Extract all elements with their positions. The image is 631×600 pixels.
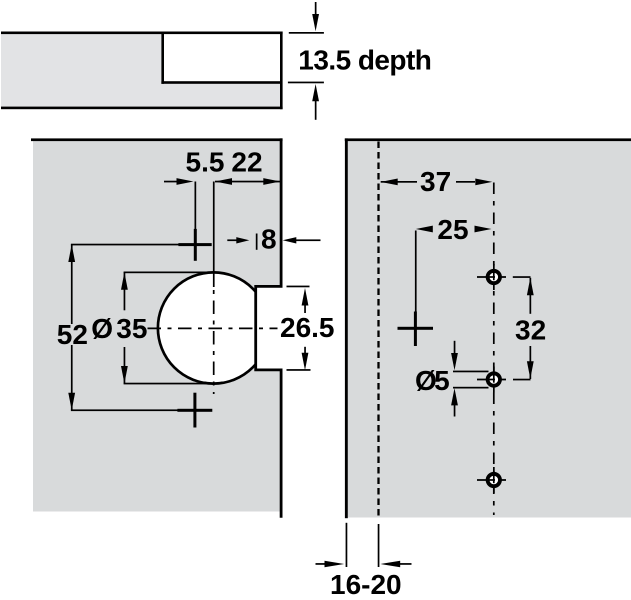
leader bottom tangent — [453, 387, 489, 389]
screw hole 1 — [477, 271, 506, 283]
extension top — [287, 286, 310, 288]
centre line vertical through cup — [213, 290, 215, 394]
arrow right side pointing left — [283, 237, 321, 243]
screw hole centre line vertical — [493, 183, 495, 516]
wire notch bottom edge — [161, 81, 280, 84]
extension bottom — [287, 369, 311, 371]
svg-text:37: 37 — [420, 166, 451, 197]
door front-view gray body — [33, 140, 281, 512]
screw hole 2 — [477, 373, 506, 385]
screw hole 3 — [477, 474, 506, 486]
arrow left side pointing right — [227, 237, 249, 243]
upper cross screw position — [178, 229, 211, 261]
svg-text:25: 25 — [437, 214, 468, 245]
door side-view gray body — [1, 33, 281, 108]
svg-text:5.5: 5.5 — [186, 147, 225, 178]
wire top border of bar — [1, 32, 283, 35]
svg-text:52: 52 — [57, 319, 88, 350]
wire cabinet left border — [345, 138, 348, 518]
extension line to upper cross — [195, 182, 197, 230]
wire door right border with notch — [256, 138, 281, 517]
arrow up to bottom line — [312, 84, 319, 120]
extension line top — [289, 32, 324, 34]
leader 52 top — [71, 244, 196, 246]
wire right border of bar — [280, 32, 283, 110]
tick at notch edge projection — [256, 234, 258, 250]
dim 25 — [416, 226, 492, 233]
svg-text:35: 35 — [116, 313, 147, 344]
leader dash at hole 1 — [513, 276, 531, 278]
svg-text:Ø: Ø — [91, 313, 113, 344]
cabinet side gray body — [348, 140, 631, 518]
svg-text:13.5 depth: 13.5 depth — [298, 45, 431, 76]
extension line left — [346, 523, 348, 567]
dim line 22 with outward arrows — [215, 178, 280, 185]
dim 52 vertical — [68, 245, 75, 411]
svg-text:16-20: 16-20 — [330, 569, 402, 600]
arrow down — [302, 347, 309, 371]
hinge cup recess notch (white) — [163, 33, 281, 83]
lower cross screw position — [177, 393, 212, 428]
leader O35 top tangent — [124, 272, 214, 274]
cross cabinet screw position — [398, 312, 434, 347]
extension line cup centre (solid part) — [213, 182, 215, 288]
leader top tangent — [453, 371, 489, 373]
leader dash at hole 2 — [513, 379, 531, 381]
arrow left pointing right — [316, 561, 345, 568]
svg-text:5: 5 — [434, 365, 450, 396]
extension line bottom — [288, 82, 324, 84]
wire door top border — [31, 138, 283, 141]
svg-text:26.5: 26.5 — [280, 312, 335, 343]
svg-text:32: 32 — [515, 314, 546, 345]
cup notch cut-out white — [257, 288, 283, 369]
leader O35 bottom tangent — [124, 383, 214, 385]
dashed overlay line door edge position — [377, 142, 379, 518]
leader 52 bottom — [71, 409, 196, 411]
arrow down to top line — [312, 2, 319, 31]
wire bottom border of bar — [1, 107, 283, 110]
svg-text:8: 8 — [261, 224, 277, 255]
wire notch left edge — [161, 32, 164, 84]
arrow down — [451, 341, 458, 370]
centre line horizontal through cup — [148, 327, 278, 329]
dim 37 — [381, 179, 493, 186]
extension line right — [378, 524, 380, 567]
wire cabinet top border — [345, 138, 631, 141]
extension line 25 to cross — [415, 231, 417, 313]
dim O35 vertical — [121, 272, 128, 383]
arrow up — [451, 388, 458, 416]
arrow right pointing left — [381, 561, 412, 568]
cup circle O35 — [158, 272, 269, 383]
arrow up — [302, 288, 309, 313]
leader + arrow right, tip at screw line — [164, 178, 194, 185]
svg-text:22: 22 — [231, 147, 262, 178]
